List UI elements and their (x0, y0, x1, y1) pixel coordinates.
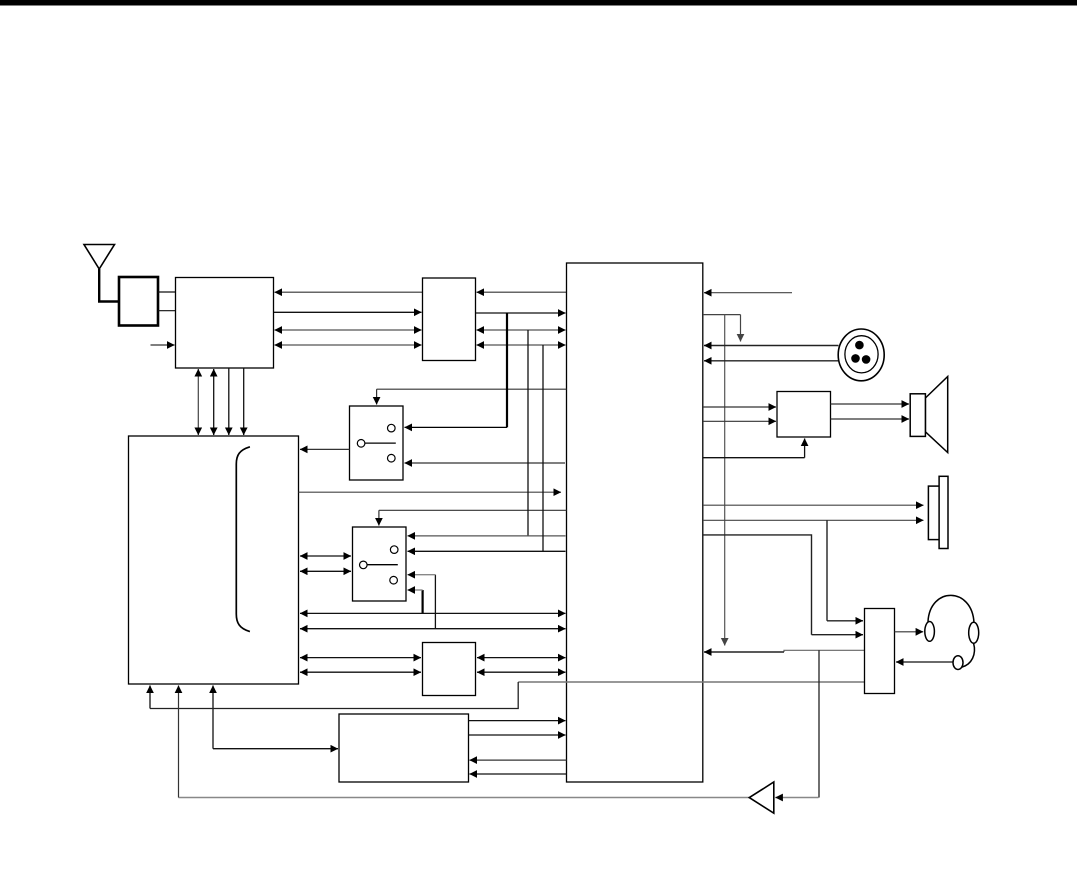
wire CPU to display 1 (703, 504, 924, 506)
wire U4-U5 double arrow 1 (300, 657, 421, 659)
tap arrow down at x740.5 (740, 315, 742, 342)
wire IF-CPU line3 (double arrow) (477, 329, 566, 331)
wire U4 output to CPU (y492) (299, 491, 562, 493)
wire RF-U4 vertical 4 (down arrow) (243, 368, 245, 435)
bus vertical x528 from IF-CPU line3 (527, 330, 529, 536)
headset symbol HS1 (925, 595, 979, 669)
left big block U4 (129, 436, 299, 684)
wire U9 to earpiece (895, 631, 924, 633)
wire CPU to display 2 (703, 519, 924, 521)
switch box S1 (350, 406, 404, 480)
power box U6 (bottom) (339, 714, 469, 782)
wire U5-CPU double arrow 1 (477, 657, 566, 659)
wire S1 to U4 (arrow left) (300, 448, 350, 450)
bus vertical x543 from IF-CPU line4 (542, 345, 544, 551)
wire mic to U9 (896, 661, 953, 663)
wire CPU y534.9 down to headset box port2 (703, 535, 812, 635)
antenna ANT1 (84, 245, 119, 302)
interface box U5 (423, 643, 476, 696)
IF block U2 (423, 278, 476, 361)
headset interface box U9 (865, 609, 895, 694)
wire RF-U4 vertical 1 (double arrow) (197, 369, 199, 435)
wire U4-CPU long double arrow 2 (300, 628, 566, 630)
wire CPU to U6 in1 (470, 759, 567, 761)
RF block U1 (176, 278, 274, 369)
wire RF-U4 vertical 2 (double arrow) (213, 369, 215, 435)
wire net y682 long line to headset box (518, 681, 864, 683)
wire CPU right y314.6 short line (703, 314, 741, 316)
wire antenna box to RF top (158, 291, 176, 293)
wire U5-CPU double arrow 2 (477, 671, 566, 673)
antenna switch box U8 (thick border) (119, 277, 158, 326)
audio amp box U7 (777, 392, 831, 438)
wire feedback net y797 from buffer to U4 (179, 797, 750, 799)
wire amp to speaker 1 (831, 403, 910, 405)
wire RF-IF line1 (IF to RF arrow) (275, 291, 423, 293)
wire U4-CPU long double arrow 1 (300, 612, 566, 614)
display DS1 (two nested bars) (928, 476, 948, 548)
wire U4-S2 double arrow 2 (300, 570, 351, 572)
wire S2 right port2 (408, 550, 566, 552)
wire S2 right port3 hooked to long bus y628.7 (434, 575, 436, 629)
wire CPU to audio amp in2 (703, 420, 776, 422)
DIN connector J1 (838, 329, 884, 381)
long grey vertical x724.7 with down arrow (724, 315, 726, 646)
wire U6 to CPU out2 (469, 734, 566, 736)
wire arrow into RF left (151, 344, 175, 346)
wire RF-IF line2 (RF to IF arrow) (274, 311, 422, 313)
wire amp to speaker 2 (831, 418, 910, 420)
wire U4-S2 double arrow 1 (300, 555, 351, 557)
thick bus vertical into S1 upper right port (506, 313, 508, 427)
buffer amp A1 (triangle pointing left) (749, 782, 774, 813)
wire CPU to audio amp in1 (703, 406, 776, 408)
wire amp enable feed from CPU (703, 457, 805, 459)
wire U4-U5 double arrow 2 (300, 671, 421, 673)
wire U4 bottom port3 down to U6 input (212, 686, 214, 749)
CPU main block U3 (567, 263, 703, 782)
wire RF-IF line4 (double arrow) (275, 344, 422, 346)
top black header bar (0, 0, 1077, 6)
wire RF-U4 vertical 3 (down arrow) (228, 368, 230, 435)
wire S1 top feed from CPU (377, 388, 567, 390)
speaker LS1 (910, 377, 948, 453)
wire U6 to CPU out1 (469, 720, 566, 722)
wire DIN line1 (704, 345, 839, 347)
switch box S2 (353, 527, 407, 601)
wire vertical x819 from headset net down to buffer input (818, 650, 820, 797)
wire RF-IF line3 (double arrow) (275, 329, 422, 331)
wire IF-CPU line1 (CPU to IF arrow) (477, 291, 567, 293)
wire IF-CPU line4 (double arrow) (477, 344, 566, 346)
wire CPU to S1 lower right port (405, 462, 566, 464)
wire CPU right y292 floating line (704, 292, 792, 294)
wire IF-CPU line2 (IF to CPU arrow) (476, 312, 566, 314)
wire S2 top feed from CPU (379, 509, 567, 511)
wire CPU to U6 in2 (470, 773, 567, 775)
wire CPU display2 tap down to headset box port1 (826, 520, 828, 621)
wire S2 right port1 (grey) (408, 535, 566, 537)
wire antenna box to RF bottom (158, 310, 176, 312)
big parenthesis glyph inside U4 (236, 447, 250, 632)
wire headset box to CPU (y651) with small step (784, 650, 865, 652)
wire S2 right port4 thick stub to long bus y613.4 (422, 590, 424, 613)
wire DIN line2 (704, 360, 839, 362)
